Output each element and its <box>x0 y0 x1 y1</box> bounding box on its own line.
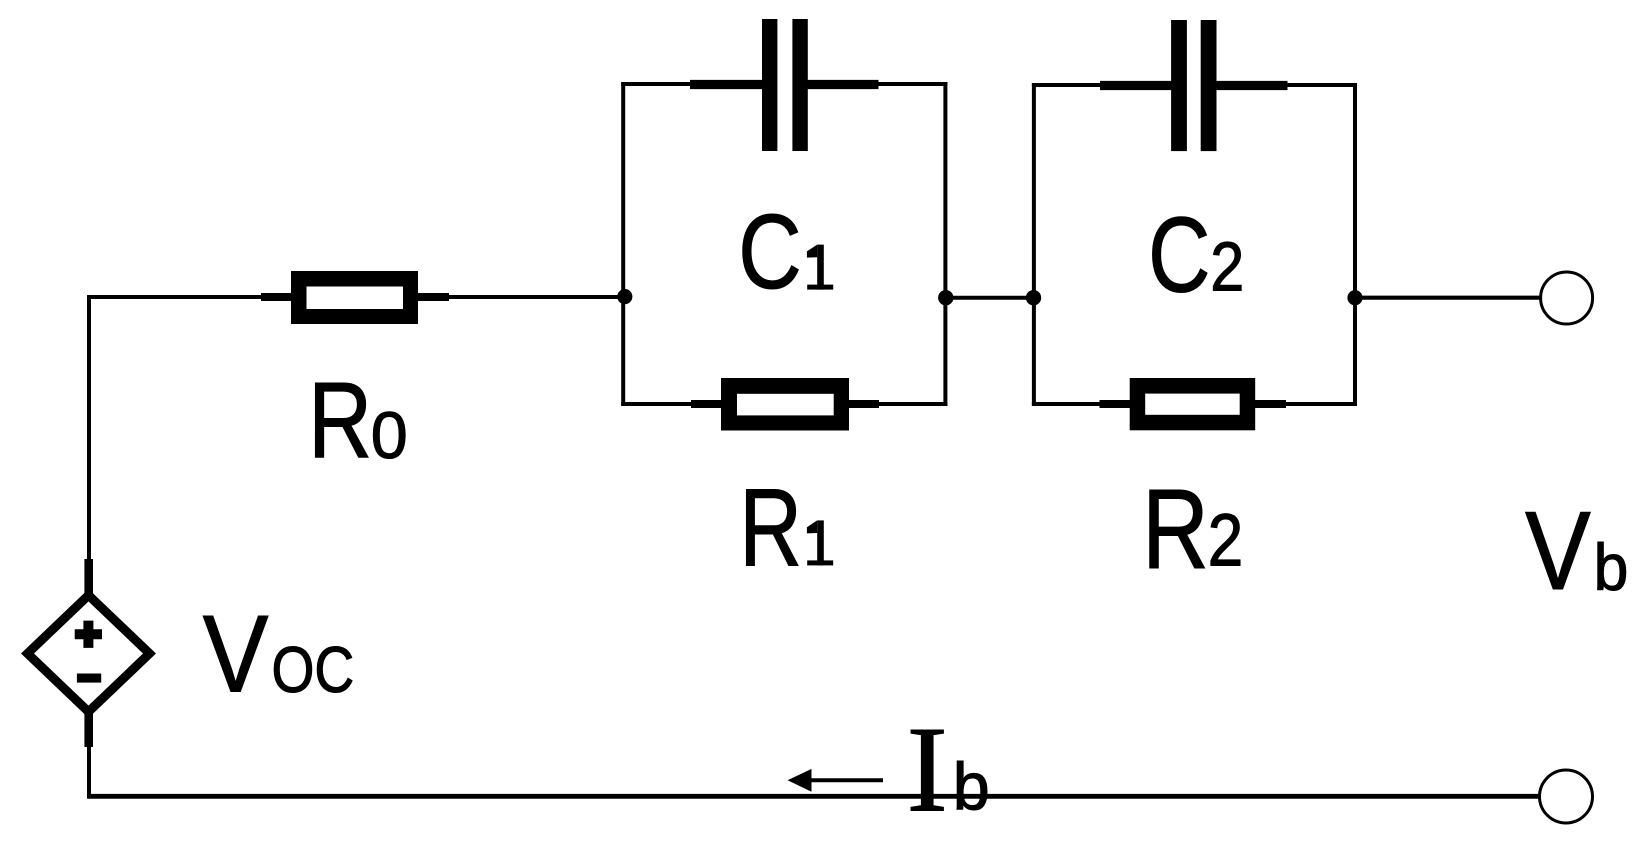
svg-text:C: C <box>738 192 801 311</box>
terminal negative (open circle) <box>1540 770 1593 823</box>
node C junction dot <box>1347 290 1362 305</box>
wire box1 top-left horizontal <box>621 82 691 86</box>
label C2 <box>1148 195 1210 315</box>
wire bottom horizontal to negative terminal <box>87 794 1540 799</box>
svg-text:R: R <box>308 360 372 480</box>
node A2 junction dot <box>938 290 953 305</box>
svg-text:b: b <box>1594 530 1629 604</box>
node A junction dot <box>617 289 632 304</box>
wire box2 left vertical <box>1032 83 1036 406</box>
wire R0 left lead stub <box>261 293 292 301</box>
current Ib arrow (pointing left) <box>788 769 883 792</box>
label VOC <box>203 593 269 716</box>
resistor R0 <box>291 271 418 324</box>
wire box1 left vertical <box>621 82 625 406</box>
label Ib <box>907 701 948 838</box>
svg-text:V: V <box>203 593 269 716</box>
voltage source VOC plus sign <box>75 621 102 648</box>
wire left vertical from source to bottom wire <box>87 746 91 798</box>
svg-text:2: 2 <box>1210 227 1244 306</box>
wire box1 top-right horizontal <box>877 82 947 86</box>
wire box1 bottom-left horizontal <box>621 402 692 406</box>
wire box2 top-left horizontal <box>1032 83 1101 87</box>
voltage source VOC bottom lead stub <box>84 712 93 747</box>
svg-text:2: 2 <box>1208 498 1244 581</box>
wire R2 left lead stub <box>1100 400 1132 408</box>
voltage source VOC diamond <box>28 595 150 712</box>
label Vb <box>1525 490 1591 614</box>
capacitor C1 <box>690 19 879 151</box>
wire box2 bottom-right horizontal <box>1285 402 1357 406</box>
wire box2 right vertical <box>1353 83 1357 406</box>
terminal positive (open circle) <box>1541 272 1593 324</box>
svg-text:C: C <box>1148 195 1210 315</box>
wire left vertical from top wire down to source <box>87 295 91 561</box>
wire R0 right lead stub <box>418 293 449 301</box>
wire top-left horizontal from left branch to R0 <box>87 295 263 299</box>
wire box1 bottom-right horizontal <box>878 402 947 406</box>
voltage source VOC top lead stub <box>84 559 93 594</box>
wire from R0 to node A <box>448 295 627 299</box>
wire R2 right lead stub <box>1255 400 1286 408</box>
svg-text:I: I <box>907 701 948 838</box>
wire R1 left lead stub <box>691 400 722 408</box>
svg-text:0: 0 <box>371 399 408 473</box>
capacitor C2 <box>1100 20 1288 151</box>
wire between node A2 and node B <box>945 296 1034 300</box>
svg-text:R: R <box>739 467 802 590</box>
voltage source VOC minus sign <box>77 674 101 683</box>
label R2 <box>1142 466 1209 592</box>
svg-text:V: V <box>1525 490 1591 614</box>
wire box1 right vertical <box>943 82 947 406</box>
wire R1 right lead stub <box>849 400 879 408</box>
svg-text:R: R <box>1142 466 1209 592</box>
wire box2 bottom-left horizontal <box>1032 402 1101 406</box>
label R1 <box>739 467 802 590</box>
resistor R1 <box>721 378 849 431</box>
wire box2 top-right horizontal <box>1286 83 1357 87</box>
label R0 <box>308 360 372 480</box>
node B junction dot <box>1026 290 1041 305</box>
svg-text:OC: OC <box>272 633 355 706</box>
label C1 <box>738 192 801 311</box>
svg-text:b: b <box>953 750 990 824</box>
resistor R2 <box>1130 378 1256 430</box>
wire node C to positive terminal <box>1355 296 1540 300</box>
